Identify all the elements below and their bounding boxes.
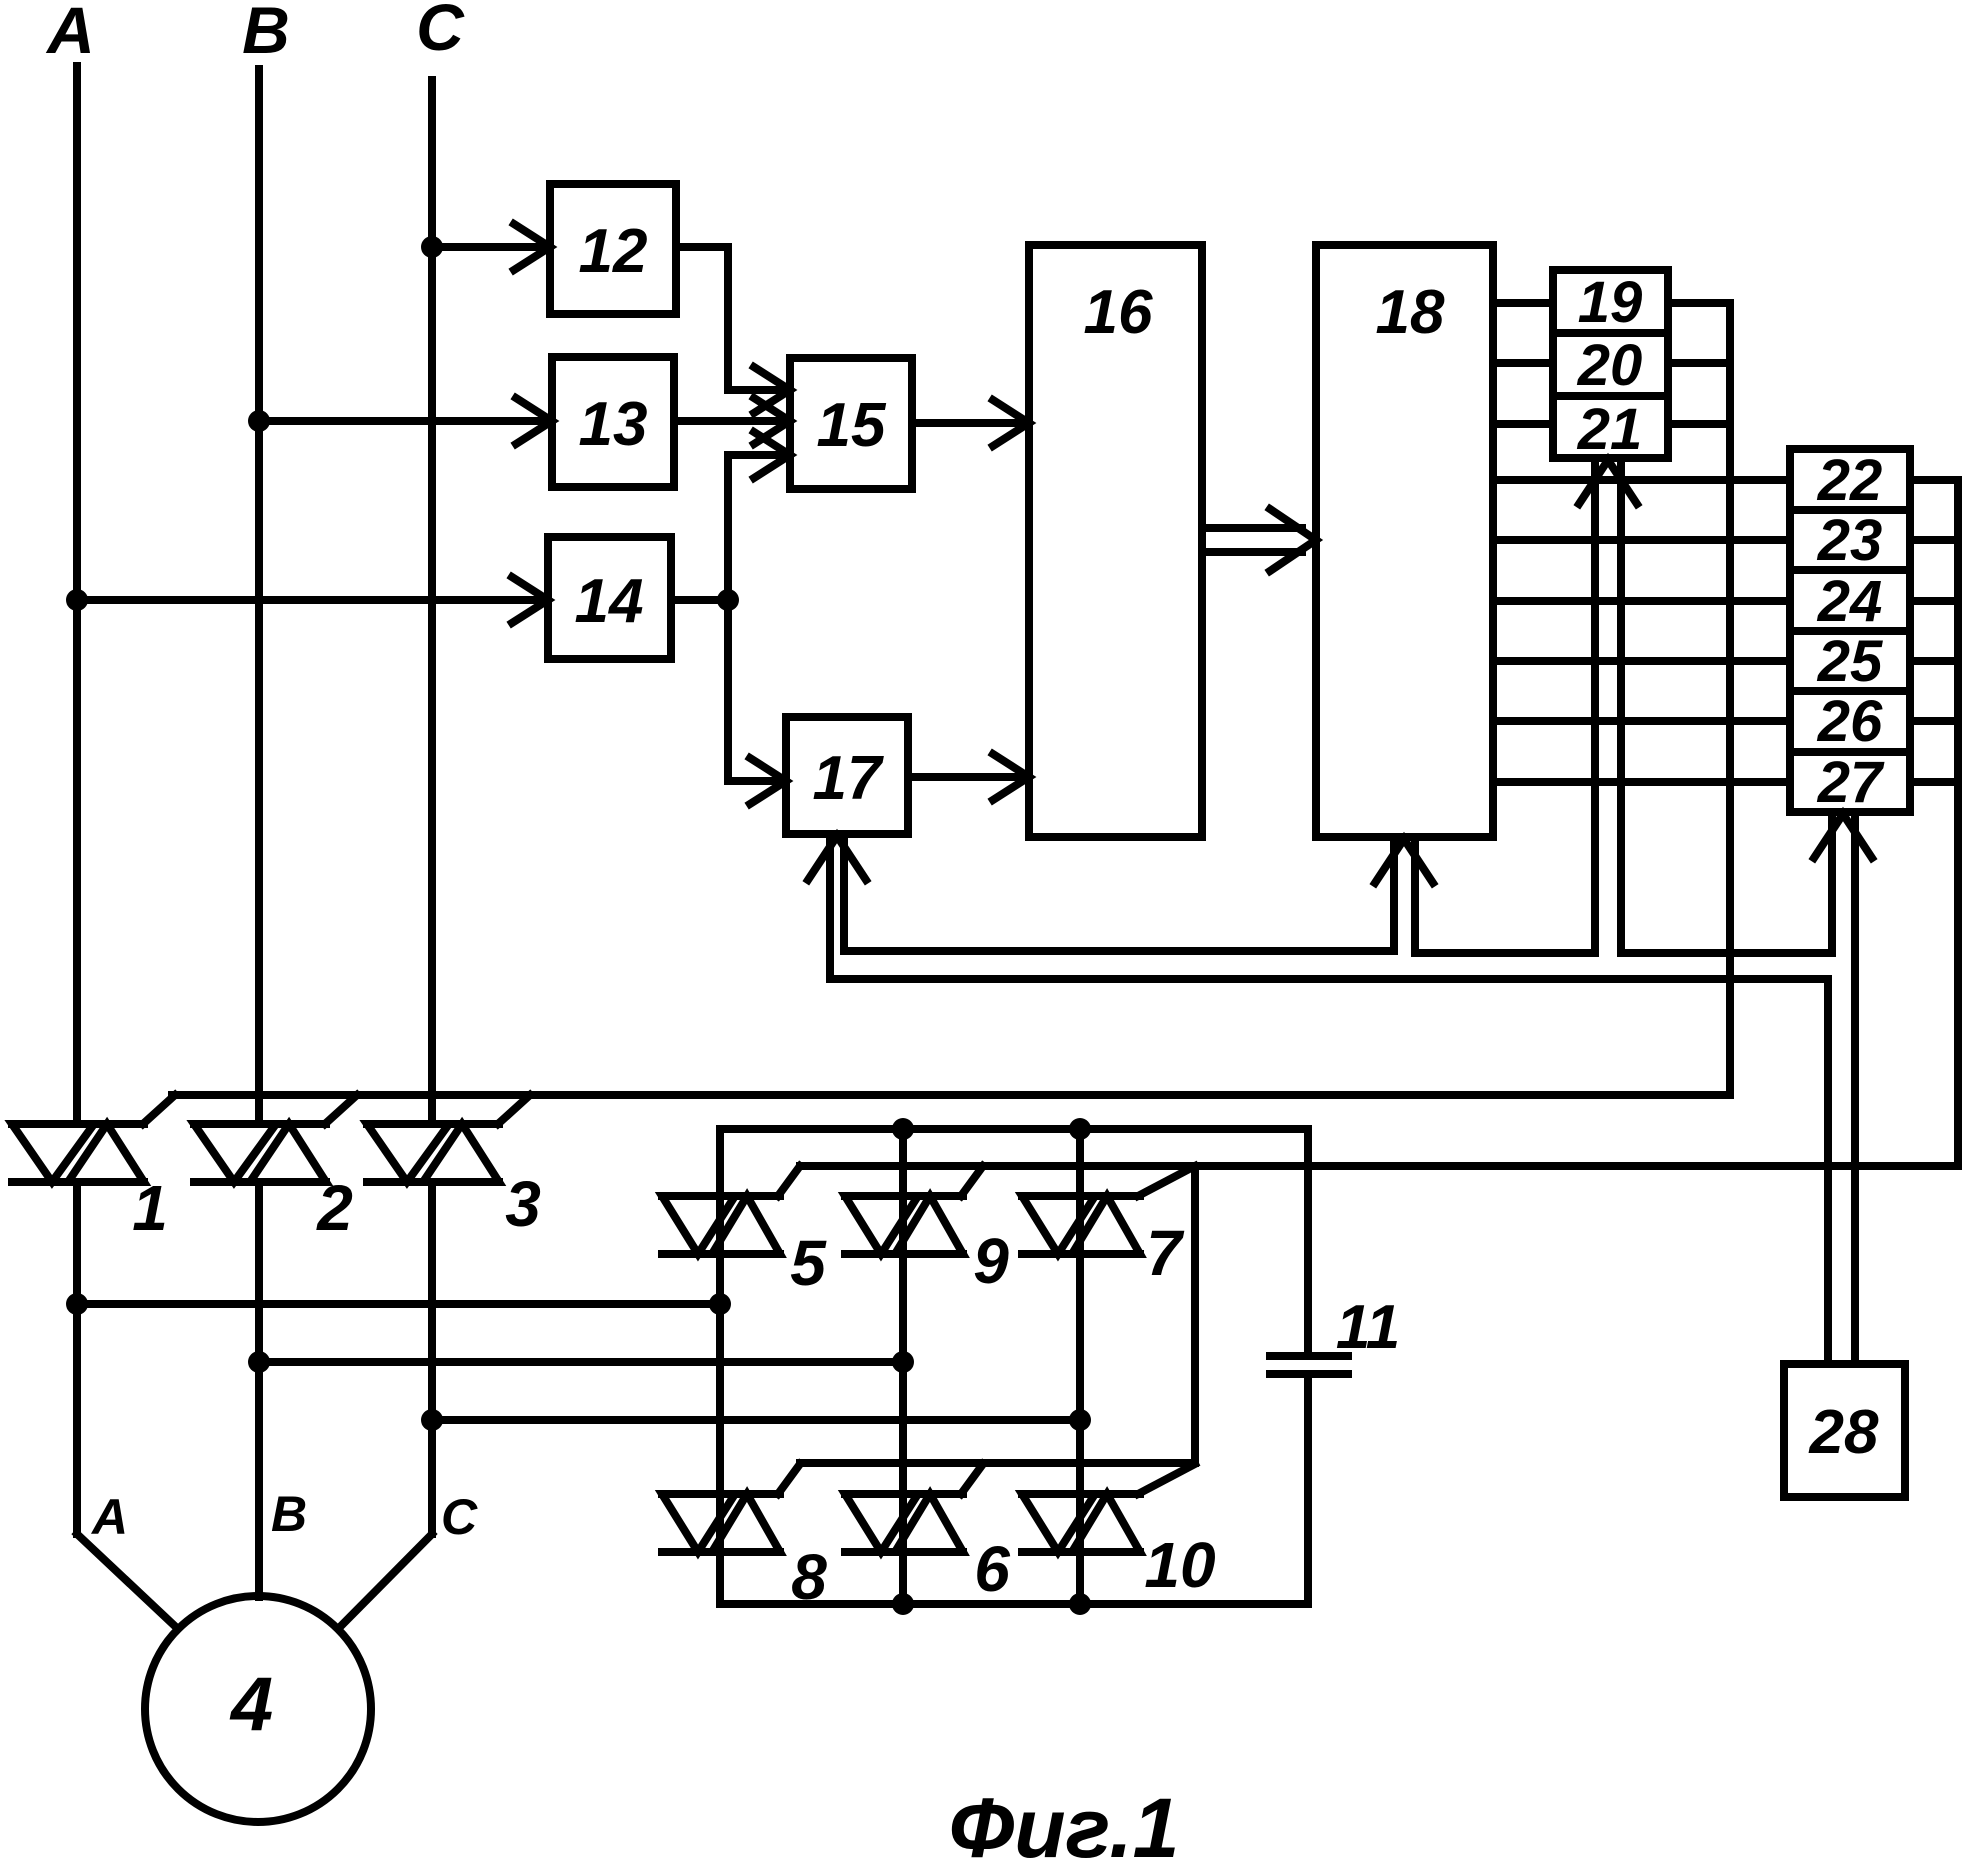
svg-text:A: A <box>90 1489 128 1545</box>
svg-text:13: 13 <box>579 390 648 459</box>
svg-text:5: 5 <box>790 1227 827 1299</box>
svg-text:19: 19 <box>1578 270 1643 335</box>
svg-text:8: 8 <box>791 1541 827 1613</box>
svg-text:C: C <box>441 1489 478 1545</box>
svg-text:6: 6 <box>974 1533 1010 1605</box>
svg-text:26: 26 <box>1817 689 1883 754</box>
svg-text:22: 22 <box>1817 448 1883 513</box>
svg-text:11: 11 <box>1336 1293 1400 1362</box>
svg-text:27: 27 <box>1817 750 1885 815</box>
svg-text:C: C <box>416 0 465 64</box>
svg-text:B: B <box>271 1486 307 1542</box>
svg-text:10: 10 <box>1144 1529 1215 1601</box>
svg-text:16: 16 <box>1084 278 1153 347</box>
svg-text:9: 9 <box>973 1225 1009 1297</box>
svg-text:21: 21 <box>1577 397 1643 462</box>
svg-text:B: B <box>242 0 290 67</box>
svg-text:28: 28 <box>1809 1398 1879 1467</box>
svg-text:24: 24 <box>1817 569 1883 634</box>
svg-text:3: 3 <box>505 1168 541 1240</box>
svg-text:A: A <box>45 0 95 67</box>
svg-text:2: 2 <box>316 1172 353 1244</box>
svg-text:15: 15 <box>817 391 887 460</box>
svg-text:Фиг.1: Фиг.1 <box>949 1781 1180 1865</box>
svg-text:20: 20 <box>1577 333 1643 398</box>
svg-text:18: 18 <box>1376 278 1445 347</box>
svg-text:1: 1 <box>132 1172 168 1244</box>
svg-text:23: 23 <box>1817 508 1883 573</box>
svg-text:17: 17 <box>813 744 884 813</box>
svg-text:14: 14 <box>575 567 644 636</box>
svg-text:4: 4 <box>229 1662 273 1747</box>
svg-text:7: 7 <box>1146 1217 1185 1289</box>
svg-text:12: 12 <box>579 217 648 286</box>
svg-text:25: 25 <box>1817 629 1883 694</box>
